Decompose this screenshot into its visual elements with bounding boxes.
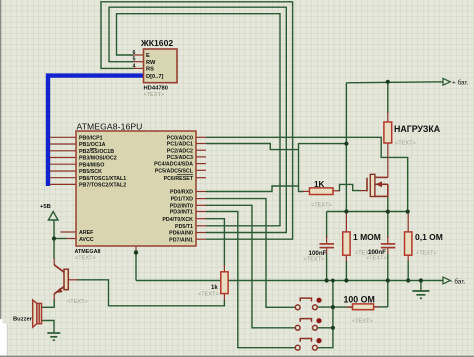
lcd module U2 box — [144, 49, 178, 83]
pin PC5 stub — [196, 169, 206, 171]
bus tap PB6 — [50, 177, 76, 179]
resistor 1MOM body — [343, 232, 350, 255]
wire btn2 right — [317, 327, 333, 329]
pin AVCC stub — [67, 238, 77, 240]
button SW3 — [295, 338, 321, 350]
svg-text:PB4/MISO: PB4/MISO — [79, 162, 104, 168]
node mosfet source — [386, 210, 390, 214]
transistor Q1 emitter arrow — [55, 288, 63, 293]
svg-text:<TEXT>: <TEXT> — [395, 141, 416, 147]
pin PC4 stub — [196, 163, 206, 165]
svg-text:<TEXT>: <TEXT> — [416, 251, 437, 257]
svg-text:НАГРУЗКА: НАГРУЗКА — [394, 124, 441, 134]
stub gate — [360, 190, 367, 192]
svg-text:PD6/AIN0: PD6/AIN0 — [169, 231, 193, 237]
pin PD4 stub — [196, 218, 206, 220]
node PC1/+bat — [344, 142, 348, 146]
svg-text:1K: 1K — [314, 180, 325, 189]
wire ground right stub — [420, 281, 422, 291]
svg-text:D[0..7]: D[0..7] — [146, 74, 163, 80]
pin PD2 stub — [196, 204, 206, 206]
bus tap PB5 — [50, 170, 76, 172]
wire nagruzka top — [387, 82, 389, 113]
resistor 1k body — [221, 272, 228, 294]
wire 1k bottom — [77, 280, 224, 306]
svg-text:100 ОМ: 100 ОМ — [344, 295, 375, 305]
svg-text:ЖК1602: ЖК1602 — [140, 38, 173, 48]
bus D[0..7] blue — [48, 76, 144, 186]
svg-text:1 МОМ: 1 МОМ — [353, 232, 381, 242]
wire minus bat rail — [136, 280, 443, 282]
wire +bat rail — [346, 82, 443, 83]
bus tap PB4 — [50, 163, 76, 165]
svg-text:6: 6 — [133, 50, 136, 56]
svg-text:<TEXT>: <TEXT> — [366, 256, 387, 262]
svg-text:PD4/T0/XCK: PD4/T0/XCK — [162, 217, 193, 223]
svg-text:<TEXT>: <TEXT> — [75, 255, 96, 261]
wire LCD RS loop — [101, 2, 293, 239]
pin PC2 stub — [196, 149, 206, 151]
node 0.1OM rail — [406, 278, 410, 282]
pin PD5 stub — [196, 225, 206, 227]
mcu right pin labels — [154, 135, 194, 243]
svg-text:PB5/SCK: PB5/SCK — [79, 169, 102, 175]
stub cap2 bottom — [387, 249, 389, 255]
pin PD7 stub — [196, 238, 206, 240]
screen edge bottom — [0, 356, 474, 357]
wire LCD RW loop — [109, 7, 286, 232]
node AVCC — [52, 236, 56, 240]
wire PD2 — [206, 205, 295, 327]
svg-text:<TEXT>: <TEXT> — [304, 257, 325, 263]
svg-text:<TEXT>: <TEXT> — [198, 292, 219, 298]
svg-text:PB7/TOSC2/XTAL2: PB7/TOSC2/XTAL2 — [79, 183, 126, 189]
stub 1K left — [303, 190, 310, 192]
stub 0.1OM bottom — [407, 255, 409, 261]
wire PC1 drop to gate net — [298, 150, 300, 186]
resistor R_NAGRUZKA body — [384, 122, 392, 143]
svg-text:PD5/T1: PD5/T1 — [175, 224, 193, 230]
svg-text:PD0/RXD: PD0/RXD — [170, 190, 193, 196]
svg-text:PB3/MOSI/OC2: PB3/MOSI/OC2 — [79, 156, 117, 162]
mosfet Q2 arrow — [376, 181, 382, 187]
wire 0.1OM bottom — [407, 261, 409, 281]
svg-text:PC4/ADC4/SDA: PC4/ADC4/SDA — [154, 162, 193, 168]
wire cap1 top drop — [326, 212, 328, 239]
stub 1k res bottom — [223, 294, 225, 301]
svg-text:4: 4 — [133, 63, 136, 69]
button SW1 — [295, 298, 321, 310]
svg-text:- бат.: - бат. — [451, 277, 466, 285]
wire PC0 path — [206, 137, 408, 211]
stub 1K right — [333, 190, 340, 192]
wire node A drop — [135, 253, 137, 281]
pin PD3 stub — [196, 211, 206, 213]
wire node rail y=211.5 — [327, 211, 408, 213]
mcu left pin labels — [79, 135, 193, 242]
node +bat/nagruzka — [386, 80, 390, 84]
resistor 1K body — [310, 188, 334, 195]
svg-text:PC5/ADC5/SCL: PC5/ADC5/SCL — [155, 168, 194, 174]
overline SS on PB2 label — [90, 148, 97, 150]
pin PD1 stub — [196, 198, 206, 200]
stub 1k res top — [223, 265, 225, 272]
capacitor C1 100nF plates — [320, 244, 335, 248]
resistor 100OM body — [353, 304, 374, 310]
svg-text:PC0/ADC0: PC0/ADC0 — [167, 135, 193, 141]
resistor 0.1OM body — [405, 232, 412, 255]
pin PC6 stub — [196, 177, 206, 179]
wire cap1 bottom — [326, 254, 328, 281]
svg-text:PD2/INT0: PD2/INT0 — [170, 203, 193, 209]
pin PC3 stub — [196, 156, 206, 158]
pin GND stub node A — [135, 246, 137, 253]
wire LCD E loop — [117, 14, 281, 226]
node btn1 — [331, 305, 335, 309]
svg-text:<TEXT>: <TEXT> — [144, 92, 165, 98]
svg-text:AREF: AREF — [79, 230, 94, 236]
ground right — [412, 291, 429, 298]
pin RS stub — [134, 67, 144, 69]
wire cap2 bottom down to 100 OM — [387, 254, 389, 307]
wire buzzer bottom to ground — [42, 321, 54, 334]
stub cap2 top — [387, 236, 389, 243]
svg-text:1k: 1k — [211, 285, 218, 291]
svg-text:<TEXT>: <TEXT> — [311, 203, 332, 209]
wire PD0 to gate resistor — [206, 186, 304, 192]
svg-text:PC6/RESET: PC6/RESET — [164, 176, 194, 182]
pin AREF stub — [60, 231, 76, 233]
svg-text:PC1/ADC1: PC1/ADC1 — [167, 142, 193, 148]
pin RW stub — [134, 61, 144, 63]
pin PC0 stub — [196, 136, 206, 138]
svg-text:<TEXT>: <TEXT> — [67, 299, 88, 305]
node cap1 rail — [325, 278, 329, 282]
buzzer LS1 — [33, 300, 42, 327]
stub 100OM left — [347, 306, 353, 308]
node cap2 rail — [386, 278, 390, 282]
wire 1K to gate jog — [339, 184, 362, 190]
stub nagruzka top — [387, 112, 389, 122]
wire PC1 path with jog — [206, 144, 299, 150]
node gnd rail — [419, 278, 423, 282]
bus tap PB0 — [50, 136, 76, 138]
bus tap PB3 — [50, 157, 76, 159]
svg-text:PC3/ADC3: PC3/ADC3 — [167, 155, 193, 161]
terminal +bat arrow — [443, 78, 450, 85]
svg-text:0,1 ОМ: 0,1 ОМ — [415, 232, 443, 242]
white panel bottom-left — [0, 319, 3, 324]
svg-text:PD7/AIN1: PD7/AIN1 — [169, 237, 193, 243]
svg-text:PD1/TXD: PD1/TXD — [171, 197, 194, 203]
transistor Q1 collector stub — [53, 259, 55, 266]
wire AVCC — [54, 238, 67, 240]
power +5V symbol — [48, 212, 58, 221]
stub 1MOM top — [345, 212, 347, 232]
ground buzzer — [47, 333, 60, 340]
pin PD6 stub — [196, 232, 206, 234]
svg-text:PB6/TOSC1/XTAL1: PB6/TOSC1/XTAL1 — [79, 176, 126, 182]
transistor Q1 base stub — [69, 279, 79, 281]
wire 1MOM bottom — [345, 261, 347, 281]
wire btn1 right to 100 OM — [317, 306, 352, 308]
svg-text:PC2/ADC2: PC2/ADC2 — [167, 148, 193, 154]
wire mosfet source drop — [387, 196, 389, 211]
svg-text:AVCC: AVCC — [79, 237, 94, 243]
svg-text:PB0/ICP1: PB0/ICP1 — [79, 135, 103, 141]
svg-text:5: 5 — [133, 57, 136, 63]
button SW2 — [295, 318, 321, 330]
bus tap PB1 — [50, 143, 76, 145]
svg-text:Buzzer: Buzzer — [13, 317, 33, 323]
overline RESET on PC6 label — [177, 174, 193, 176]
svg-text:+ бат.: + бат. — [452, 78, 469, 86]
transistor Q1 emitter stub — [53, 294, 55, 301]
stub nagruzka bottom / mosfet drain — [387, 143, 389, 177]
svg-text:PB1/OC1A: PB1/OC1A — [79, 142, 106, 148]
node btncommon rail — [331, 279, 335, 283]
pin PC1 stub — [196, 143, 206, 145]
stub 1MOM bottom — [345, 255, 347, 261]
node 1MOM top — [344, 209, 348, 213]
capacitor C2 100nF plates — [381, 244, 396, 248]
wire buttons common vertical — [317, 281, 333, 348]
RED pin stubs and taps — [50, 55, 408, 307]
svg-text:RS: RS — [146, 67, 154, 73]
screen edge left — [0, 0, 1, 319]
svg-text:+5В: +5В — [40, 204, 51, 210]
stub cap1 bottom — [326, 249, 328, 255]
svg-text:PB2/SS/OC1B: PB2/SS/OC1B — [79, 149, 114, 155]
node btn2 — [331, 326, 335, 330]
wire +5V stem — [53, 220, 55, 259]
stub 0.1OM top — [407, 212, 409, 232]
stub cap1 top — [326, 236, 328, 243]
wire cap2 top drop — [387, 212, 389, 238]
mcu U1 box ATMEGA8 — [76, 131, 196, 246]
svg-text:ATMEGA8: ATMEGA8 — [75, 249, 101, 255]
pin E stub — [134, 54, 144, 56]
node A gnd pin — [134, 250, 138, 254]
wire PD1 — [206, 199, 295, 308]
wire PD3 — [206, 212, 295, 348]
bus tap PB2 — [50, 150, 76, 152]
svg-text:ATMEGA8-16PU: ATMEGA8-16PU — [77, 122, 143, 132]
stub 100OM right — [374, 306, 379, 308]
wire +bat vertical x=346 — [345, 83, 347, 212]
terminal -bat arrow — [443, 277, 450, 284]
node 1MOM rail — [344, 278, 348, 282]
svg-text:<TEXT>: <TEXT> — [352, 318, 373, 324]
node 0.1OM top — [406, 210, 410, 214]
svg-text:E: E — [146, 53, 150, 59]
bus tap PB7 — [50, 183, 76, 185]
transistor Q1 collector diagonal — [54, 265, 64, 273]
svg-text:HD44780: HD44780 — [144, 86, 169, 92]
pin PD0 stub — [196, 191, 206, 193]
svg-text:RW: RW — [146, 60, 156, 66]
mosfet Q2 — [367, 174, 388, 196]
wire PD4 to 1k — [206, 219, 224, 266]
wire buzzer top — [42, 299, 54, 307]
wire 100 OM right up — [374, 306, 388, 308]
svg-text:PD3/INT1: PD3/INT1 — [170, 210, 193, 216]
transistor Q1 bar — [64, 269, 68, 290]
transistor Q1 emitter diagonal — [54, 286, 64, 294]
